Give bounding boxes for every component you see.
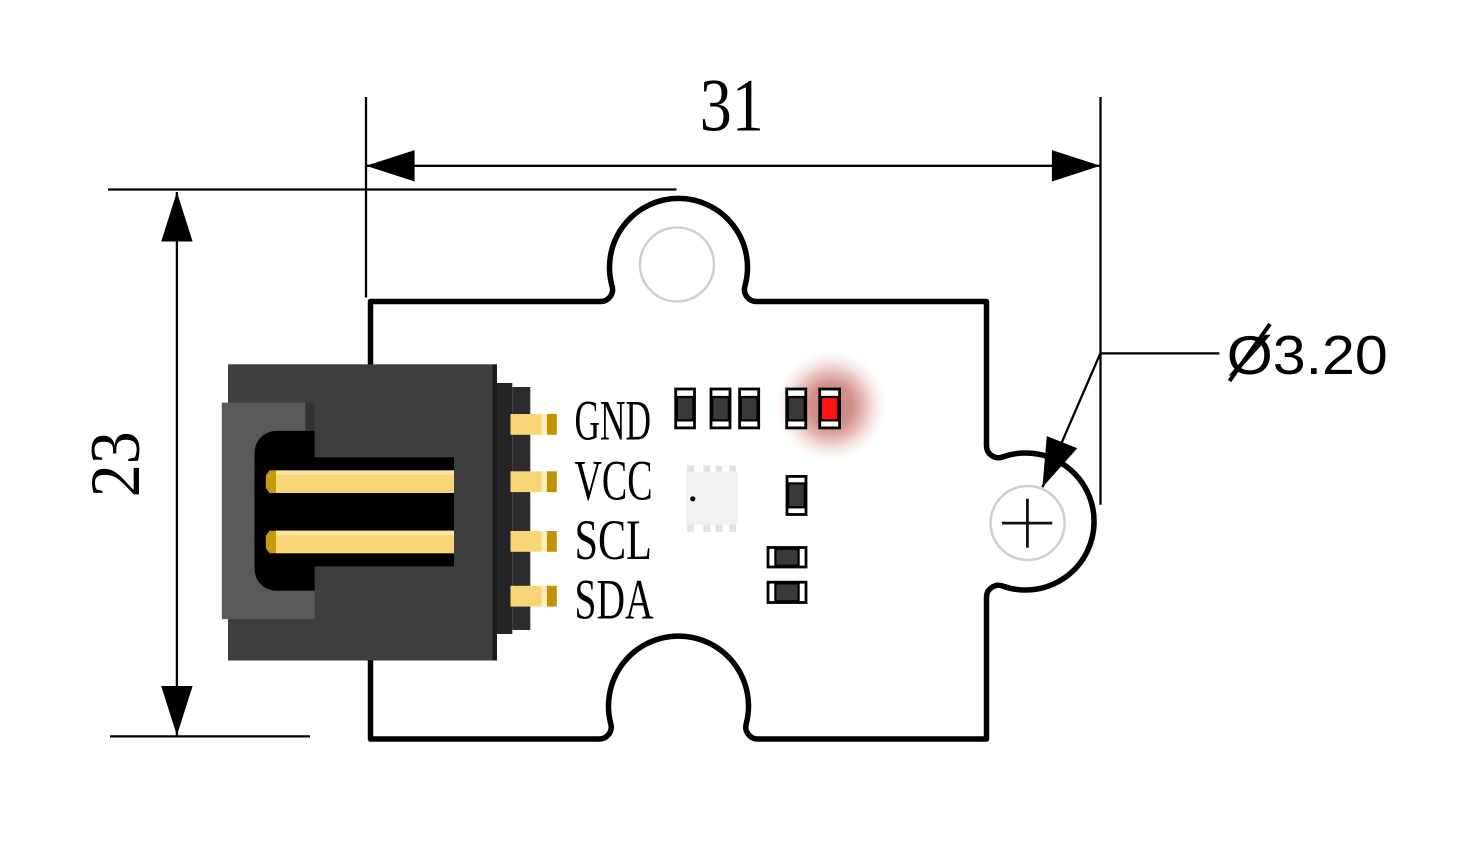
connector pin top (gold) [266,470,454,493]
connector cavity (black opening) [255,431,455,591]
dimension 23: bottom extension line [110,735,310,737]
hole crosshair vertical [1026,499,1029,548]
connector front flange [222,403,315,619]
dimension 23: bottom arrowhead [161,686,192,736]
dimension 23: top extension line [108,188,677,190]
svg-text:31: 31 [700,64,764,147]
capacitor C1 [787,476,806,514]
dimension 31: left extension line [365,97,367,298]
dimension 31: left arrowhead [366,150,415,181]
svg-text:SDA: SDA [575,569,654,632]
dimension 31: right arrowhead [1052,150,1101,181]
pin pad VCC [511,471,557,492]
svg-text:GND: GND [575,390,652,453]
leader line horizontal [1100,352,1219,354]
pin pad SCL [511,531,557,552]
connector right edge shadow [493,364,498,660]
LED D1 (red) [820,389,840,428]
LED glow halo [774,349,888,463]
mounting hole right (dimensioned, with crosshair) [991,486,1065,560]
leader line diagonal [1042,353,1100,487]
connector J1 (Grove socket) body [228,364,493,660]
resistor R2 [711,389,730,428]
svg-text:SCL: SCL [575,509,653,572]
mounting hole top (in top bump) [640,228,714,302]
pin pad SDA [511,586,557,607]
svg-text:VCC: VCC [575,449,653,512]
resistor R1 [676,389,695,428]
resistor R5 [768,548,806,568]
hole diameter symbol slash [1230,324,1271,381]
connector back block A [497,383,512,634]
svg-text:23: 23 [77,431,155,497]
hole crosshair horizontal [1002,522,1052,525]
connector back block B [512,387,530,630]
dimension 31: dimension line [366,165,1101,167]
board outline (PCB with top bump, right bump, bottom notch) [371,198,1095,739]
resistor R3 [740,389,759,428]
dimension 31: right extension line [1099,97,1101,505]
pin pad GND [511,414,557,435]
leader arrowhead [1042,436,1077,487]
dimension 23: dimension line [176,192,178,736]
connector pin bottom (gold) [266,531,454,554]
resistor R6 [768,582,806,602]
resistor R4 [787,389,806,428]
flange corner shadow [305,403,314,431]
IC U1 (SOIC-8 footprint) [686,465,738,531]
dimension 23: top arrowhead [161,192,192,242]
svg-text:Ø3.20: Ø3.20 [1227,324,1388,386]
